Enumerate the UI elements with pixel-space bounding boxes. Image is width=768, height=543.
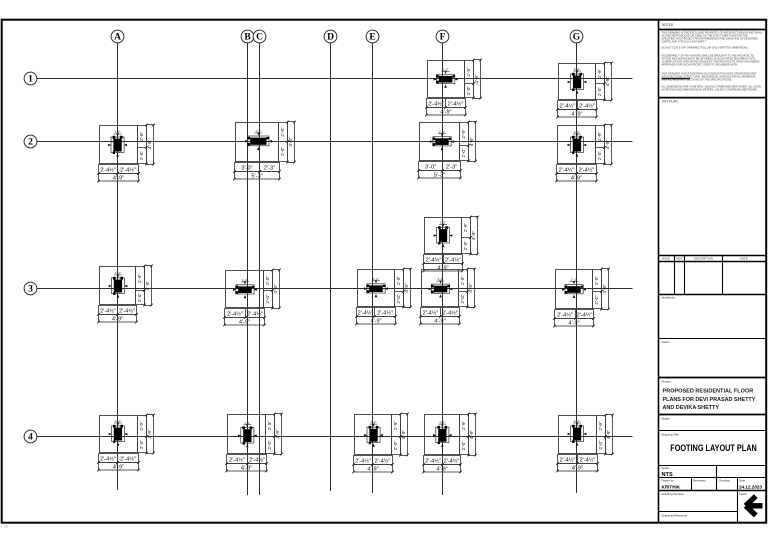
svg-text:CARTEL AND SITE DULY AUTHORITY: CARTEL AND SITE DULY AUTHORITY: [662, 39, 707, 43]
svg-text:2'-4½": 2'-4½": [120, 455, 136, 462]
svg-text:2'-0": 2'-0": [466, 86, 471, 96]
svg-text:2'-9": 2'-9": [265, 276, 270, 286]
svg-text:APPROVED FOR SUCH SPECIFIC CAS: APPROVED FOR SUCH SPECIFIC CASES TO BE A…: [662, 62, 738, 66]
svg-text:1'-2": 1'-2": [255, 129, 261, 133]
svg-text:Drawing Title: Drawing Title: [662, 433, 680, 437]
grid line 1 (horizontal): [37, 78, 633, 80]
title block: drawing title section: [659, 433, 767, 466]
svg-text:Checked: Checked: [719, 478, 731, 482]
svg-text:2'-4½": 2'-4½": [580, 456, 596, 463]
grid line G (vertical): [576, 43, 578, 493]
grid line 2 (horizontal): [37, 141, 633, 143]
svg-text:REV: REV: [677, 257, 683, 261]
svg-text:2'-0": 2'-0": [594, 295, 599, 305]
svg-text:4'-9": 4'-9": [401, 430, 406, 440]
svg-text:PROPOSED RESIDENTIAL FLOOR: PROPOSED RESIDENTIAL FLOOR: [663, 389, 754, 395]
grid line F (vertical): [442, 43, 444, 495]
svg-text:1'-2": 1'-2": [242, 278, 248, 282]
svg-text:DESCRIPTION: DESCRIPTION: [694, 257, 713, 261]
svg-text:2'-4½": 2'-4½": [448, 100, 464, 107]
svg-text:24.12.2023: 24.12.2023: [739, 485, 762, 490]
svg-text:2'-0": 2'-0": [267, 440, 272, 450]
svg-text:2'-4½": 2'-4½": [428, 100, 444, 107]
svg-text:NOTATIONS AND DIMENSIONS IN ME: NOTATIONS AND DIMENSIONS IN METERS, UNLE…: [662, 88, 759, 92]
svg-text:4'-9": 4'-9": [241, 466, 252, 472]
svg-text:2'-4½": 2'-4½": [442, 309, 458, 316]
svg-text:4'-9": 4'-9": [239, 320, 250, 326]
svg-text:1'-2": 1'-2": [373, 277, 379, 281]
svg-text:4'-9": 4'-9": [440, 110, 451, 116]
svg-text:4'-9": 4'-9": [605, 77, 610, 87]
svg-text:2'-0": 2'-0": [597, 87, 602, 97]
footing G1: [556, 62, 613, 119]
svg-text:2'-4½": 2'-4½": [557, 311, 573, 318]
title block: notes paragraphs: [662, 31, 764, 92]
footing F3: [419, 268, 476, 326]
svg-text:2'-4½": 2'-4½": [120, 166, 136, 173]
svg-text:1'-2": 1'-2": [115, 271, 121, 275]
title block: client section: [659, 340, 767, 378]
svg-text:2'-0": 2'-0": [139, 440, 144, 450]
svg-text:2'-4½": 2'-4½": [249, 456, 265, 463]
svg-text:2'-0": 2'-0": [460, 294, 465, 304]
svg-text:2'-4½": 2'-4½": [560, 102, 576, 109]
svg-text:E: E: [369, 33, 375, 43]
svg-text:FOOTING LAYOUT PLAN: FOOTING LAYOUT PLAN: [670, 442, 757, 453]
grid bubble F: [436, 30, 449, 43]
svg-text:1'-2": 1'-2": [571, 278, 577, 282]
svg-text:2'-0": 2'-0": [265, 294, 270, 304]
svg-text:2'-4½": 2'-4½": [423, 309, 439, 316]
svg-text:G: G: [573, 33, 581, 43]
svg-text:4'-9": 4'-9": [434, 319, 445, 325]
grid line D (vertical): [330, 43, 332, 491]
svg-text:1'-2": 1'-2": [115, 130, 121, 134]
svg-text:2'-0": 2'-0": [396, 294, 401, 304]
svg-text:4'-9": 4'-9": [273, 284, 278, 294]
footing A2: [97, 124, 155, 183]
footing F1: [425, 59, 482, 117]
svg-text:Reviewed: Reviewed: [693, 478, 706, 482]
svg-text:1'-2": 1'-2": [574, 67, 580, 71]
svg-text:2'-3": 2'-3": [446, 164, 457, 170]
svg-text:4'-9": 4'-9": [572, 466, 583, 472]
svg-text:4'-9": 4'-9": [147, 429, 152, 439]
svg-text:PLANS FOR DEVI PRASAD SHETTY: PLANS FOR DEVI PRASAD SHETTY: [663, 397, 756, 403]
svg-text:2'-9": 2'-9": [393, 421, 398, 431]
svg-text:2'-4½": 2'-4½": [227, 310, 243, 317]
grid line B (vertical): [247, 43, 249, 495]
svg-text:2'-4½": 2'-4½": [425, 457, 441, 464]
svg-text:4'-9": 4'-9": [602, 284, 607, 294]
title block: KEY PLAN section: [659, 98, 767, 104]
title block: drawing number section: [659, 492, 738, 512]
svg-text:2'-4½": 2'-4½": [377, 309, 393, 316]
svg-text:2'-4½": 2'-4½": [579, 102, 595, 109]
svg-text:2'-4½": 2'-4½": [358, 309, 374, 316]
svg-text:2'-0": 2'-0": [280, 147, 285, 157]
svg-text:2'-9": 2'-9": [597, 69, 602, 79]
footing G3: [553, 268, 610, 328]
svg-text:2'-4½": 2'-4½": [444, 457, 460, 464]
title block left border: [658, 20, 660, 523]
svg-text:1: 1: [28, 75, 33, 85]
svg-text:2'-0": 2'-0": [137, 293, 142, 303]
svg-text:2'-9": 2'-9": [137, 274, 142, 284]
svg-text:4'-9": 4'-9": [571, 176, 582, 182]
footing A4: [97, 414, 155, 472]
svg-text:2'-9": 2'-9": [597, 132, 602, 142]
footing G4: [556, 414, 614, 473]
svg-text:1'-2": 1'-2": [443, 67, 449, 71]
svg-text:KRITHIK: KRITHIK: [662, 485, 681, 490]
svg-text:2'-0": 2'-0": [461, 441, 466, 451]
svg-text:1'-2": 1'-2": [438, 277, 444, 281]
svg-text:4'-9": 4'-9": [288, 137, 293, 147]
svg-text:2'-9": 2'-9": [461, 421, 466, 431]
svg-text:1 : 100: 1 : 100: [1, 526, 9, 529]
grid bubble D: [324, 30, 337, 43]
svg-text:2'-9": 2'-9": [280, 127, 285, 137]
title block: NOTES header: [659, 23, 767, 29]
underline segment in notes paragraph 4: [662, 78, 691, 80]
footing A3: [97, 265, 153, 324]
svg-text:2: 2: [28, 138, 33, 148]
svg-text:1'-2": 1'-2": [574, 130, 580, 134]
svg-text:1'-2": 1'-2": [244, 421, 250, 425]
title block: scale row: [659, 466, 767, 479]
svg-text:2'-4½": 2'-4½": [100, 307, 116, 314]
svg-text:2'-9": 2'-9": [267, 421, 272, 431]
svg-text:2'-0": 2'-0": [598, 440, 603, 450]
title block: drawn/reviewed/checked/date row: [659, 478, 767, 491]
north arrow: [746, 496, 763, 515]
svg-text:4'-9": 4'-9": [275, 429, 280, 439]
svg-text:A: A: [114, 33, 121, 43]
grid bubble 3: [24, 282, 37, 295]
svg-text:North: North: [740, 492, 748, 496]
svg-text:2'-0": 2'-0": [597, 151, 602, 161]
footing BC2: [233, 121, 296, 181]
svg-text:4'-9": 4'-9": [367, 467, 378, 473]
svg-text:2'-9": 2'-9": [594, 276, 599, 286]
footing E3: [355, 268, 412, 326]
svg-text:4'-9": 4'-9": [113, 465, 124, 471]
grid line A (vertical): [117, 43, 119, 490]
svg-text:2'-9": 2'-9": [139, 132, 144, 142]
footing G2: [555, 124, 613, 183]
svg-text:1'-2": 1'-2": [440, 221, 446, 225]
svg-text:2'-9": 2'-9": [460, 276, 465, 286]
svg-text:4'-9": 4'-9": [605, 140, 610, 150]
svg-text:3'-0": 3'-0": [425, 164, 436, 170]
svg-text:2'-4½": 2'-4½": [247, 310, 263, 317]
svg-text:2'-0": 2'-0": [463, 241, 468, 251]
svg-text:1'-2": 1'-2": [115, 419, 121, 423]
svg-text:2'-4½": 2'-4½": [100, 455, 116, 462]
svg-text:4'-9": 4'-9": [437, 266, 448, 272]
footing F2a: [422, 216, 479, 273]
svg-text:DATE: DATE: [740, 257, 747, 261]
svg-text:2'-4½": 2'-4½": [560, 456, 576, 463]
svg-text:Drawing Reference: Drawing Reference: [662, 513, 688, 517]
title block: project section: [659, 379, 767, 414]
svg-text:2'-4½": 2'-4½": [375, 457, 391, 464]
svg-text:Client:: Client:: [662, 340, 671, 344]
footing BC3: [223, 269, 281, 327]
svg-text:ISSUE: ISSUE: [662, 257, 671, 261]
svg-text:Project:: Project:: [662, 379, 672, 383]
svg-text:2'-9": 2'-9": [396, 276, 401, 286]
svg-text:4'-9": 4'-9": [113, 176, 124, 182]
svg-text:2'-4½": 2'-4½": [445, 256, 461, 263]
svg-text:4: 4: [28, 433, 33, 443]
svg-text:3'-0": 3'-0": [241, 165, 252, 171]
footing BC4: [225, 413, 283, 473]
title block: stage section: [659, 417, 767, 431]
footing F4: [422, 413, 477, 474]
svg-text:DO NOT SCALE OFF DRAWING, FOLL: DO NOT SCALE OFF DRAWING, FOLLOW ONLY WR…: [662, 46, 749, 50]
title block: issue/revision table: [659, 256, 767, 295]
svg-text:D: D: [327, 33, 334, 43]
title block: architects section: [659, 296, 767, 339]
svg-text:NOTES: NOTES: [662, 23, 673, 27]
svg-text:2'-9": 2'-9": [461, 129, 466, 139]
grid bubble 4: [24, 430, 37, 443]
svg-text:4'-9": 4'-9": [112, 317, 123, 323]
svg-text:2'-0": 2'-0": [461, 148, 466, 158]
title block: north cell: [738, 491, 748, 523]
svg-text:5'-3": 5'-3": [434, 173, 445, 179]
svg-text:4'-9": 4'-9": [568, 321, 579, 327]
svg-text:2'-4½": 2'-4½": [426, 256, 442, 263]
svg-text:4'-9": 4'-9": [571, 112, 582, 118]
svg-text:2'-4½": 2'-4½": [355, 457, 371, 464]
grid bubble 1: [24, 72, 37, 85]
svg-text:Scale: Scale: [662, 466, 670, 470]
svg-text:2'-4½": 2'-4½": [119, 307, 135, 314]
svg-text:1'-2": 1'-2": [371, 420, 377, 424]
footing E4: [352, 413, 409, 474]
svg-text:4'-9": 4'-9": [147, 140, 152, 150]
svg-text:F: F: [440, 33, 446, 43]
grid bubble 2: [24, 135, 37, 148]
svg-text:AND DEVIKA SHETTY: AND DEVIKA SHETTY: [663, 405, 720, 411]
svg-text:Drawn by: Drawn by: [662, 478, 675, 482]
svg-text:2'-4½": 2'-4½": [559, 166, 575, 173]
svg-text:2'-4½": 2'-4½": [229, 456, 245, 463]
grid bubble E: [366, 30, 379, 43]
svg-text:2'-4½": 2'-4½": [579, 166, 595, 173]
grid bubble B: [241, 30, 254, 43]
svg-text:4'-9": 4'-9": [606, 430, 611, 440]
svg-text:2'-3": 2'-3": [264, 165, 275, 171]
svg-text:B: B: [244, 33, 251, 43]
svg-text:2'-0": 2'-0": [393, 441, 398, 451]
grid line C (vertical): [259, 43, 261, 495]
svg-text:2'-4½": 2'-4½": [577, 311, 593, 318]
svg-text:1'-2": 1'-2": [439, 420, 445, 424]
svg-text:1'-2": 1'-2": [439, 130, 445, 134]
grid bubble G: [570, 30, 583, 43]
svg-text:3: 3: [28, 285, 33, 295]
svg-text:4'-9": 4'-9": [404, 283, 409, 293]
svg-text:4'-9": 4'-9": [468, 283, 473, 293]
grid line 4 (horizontal): [37, 436, 633, 438]
footing F2: [417, 121, 477, 180]
svg-text:2'-4½": 2'-4½": [100, 166, 116, 173]
svg-text:2'-0": 2'-0": [139, 151, 144, 161]
svg-text:2'-9": 2'-9": [598, 421, 603, 431]
svg-text:Drawing Number: Drawing Number: [662, 492, 685, 496]
svg-text:2'-9": 2'-9": [139, 421, 144, 431]
svg-text:4'-9": 4'-9": [436, 467, 447, 473]
svg-text:C: C: [256, 33, 263, 43]
grid line 3 (horizontal): [37, 288, 633, 290]
svg-text:4'-9": 4'-9": [471, 231, 476, 241]
grid line E (vertical): [372, 43, 374, 493]
svg-text:4'-9": 4'-9": [469, 430, 474, 440]
grid bubble A: [111, 30, 124, 43]
svg-text:4'-9": 4'-9": [145, 281, 150, 291]
svg-text:5'-3": 5'-3": [251, 174, 262, 180]
svg-text:KEY PLAN: KEY PLAN: [662, 99, 678, 103]
svg-text:Date: Date: [739, 478, 745, 482]
svg-text:4'-9": 4'-9": [370, 319, 381, 325]
grid bubble C: [253, 30, 266, 43]
svg-text:Stage:: Stage:: [662, 417, 671, 421]
svg-text:2'-9": 2'-9": [466, 67, 471, 77]
svg-text:2'-9": 2'-9": [463, 223, 468, 233]
svg-text:Architects:: Architects:: [662, 296, 676, 300]
svg-text:1'-2": 1'-2": [574, 419, 580, 423]
